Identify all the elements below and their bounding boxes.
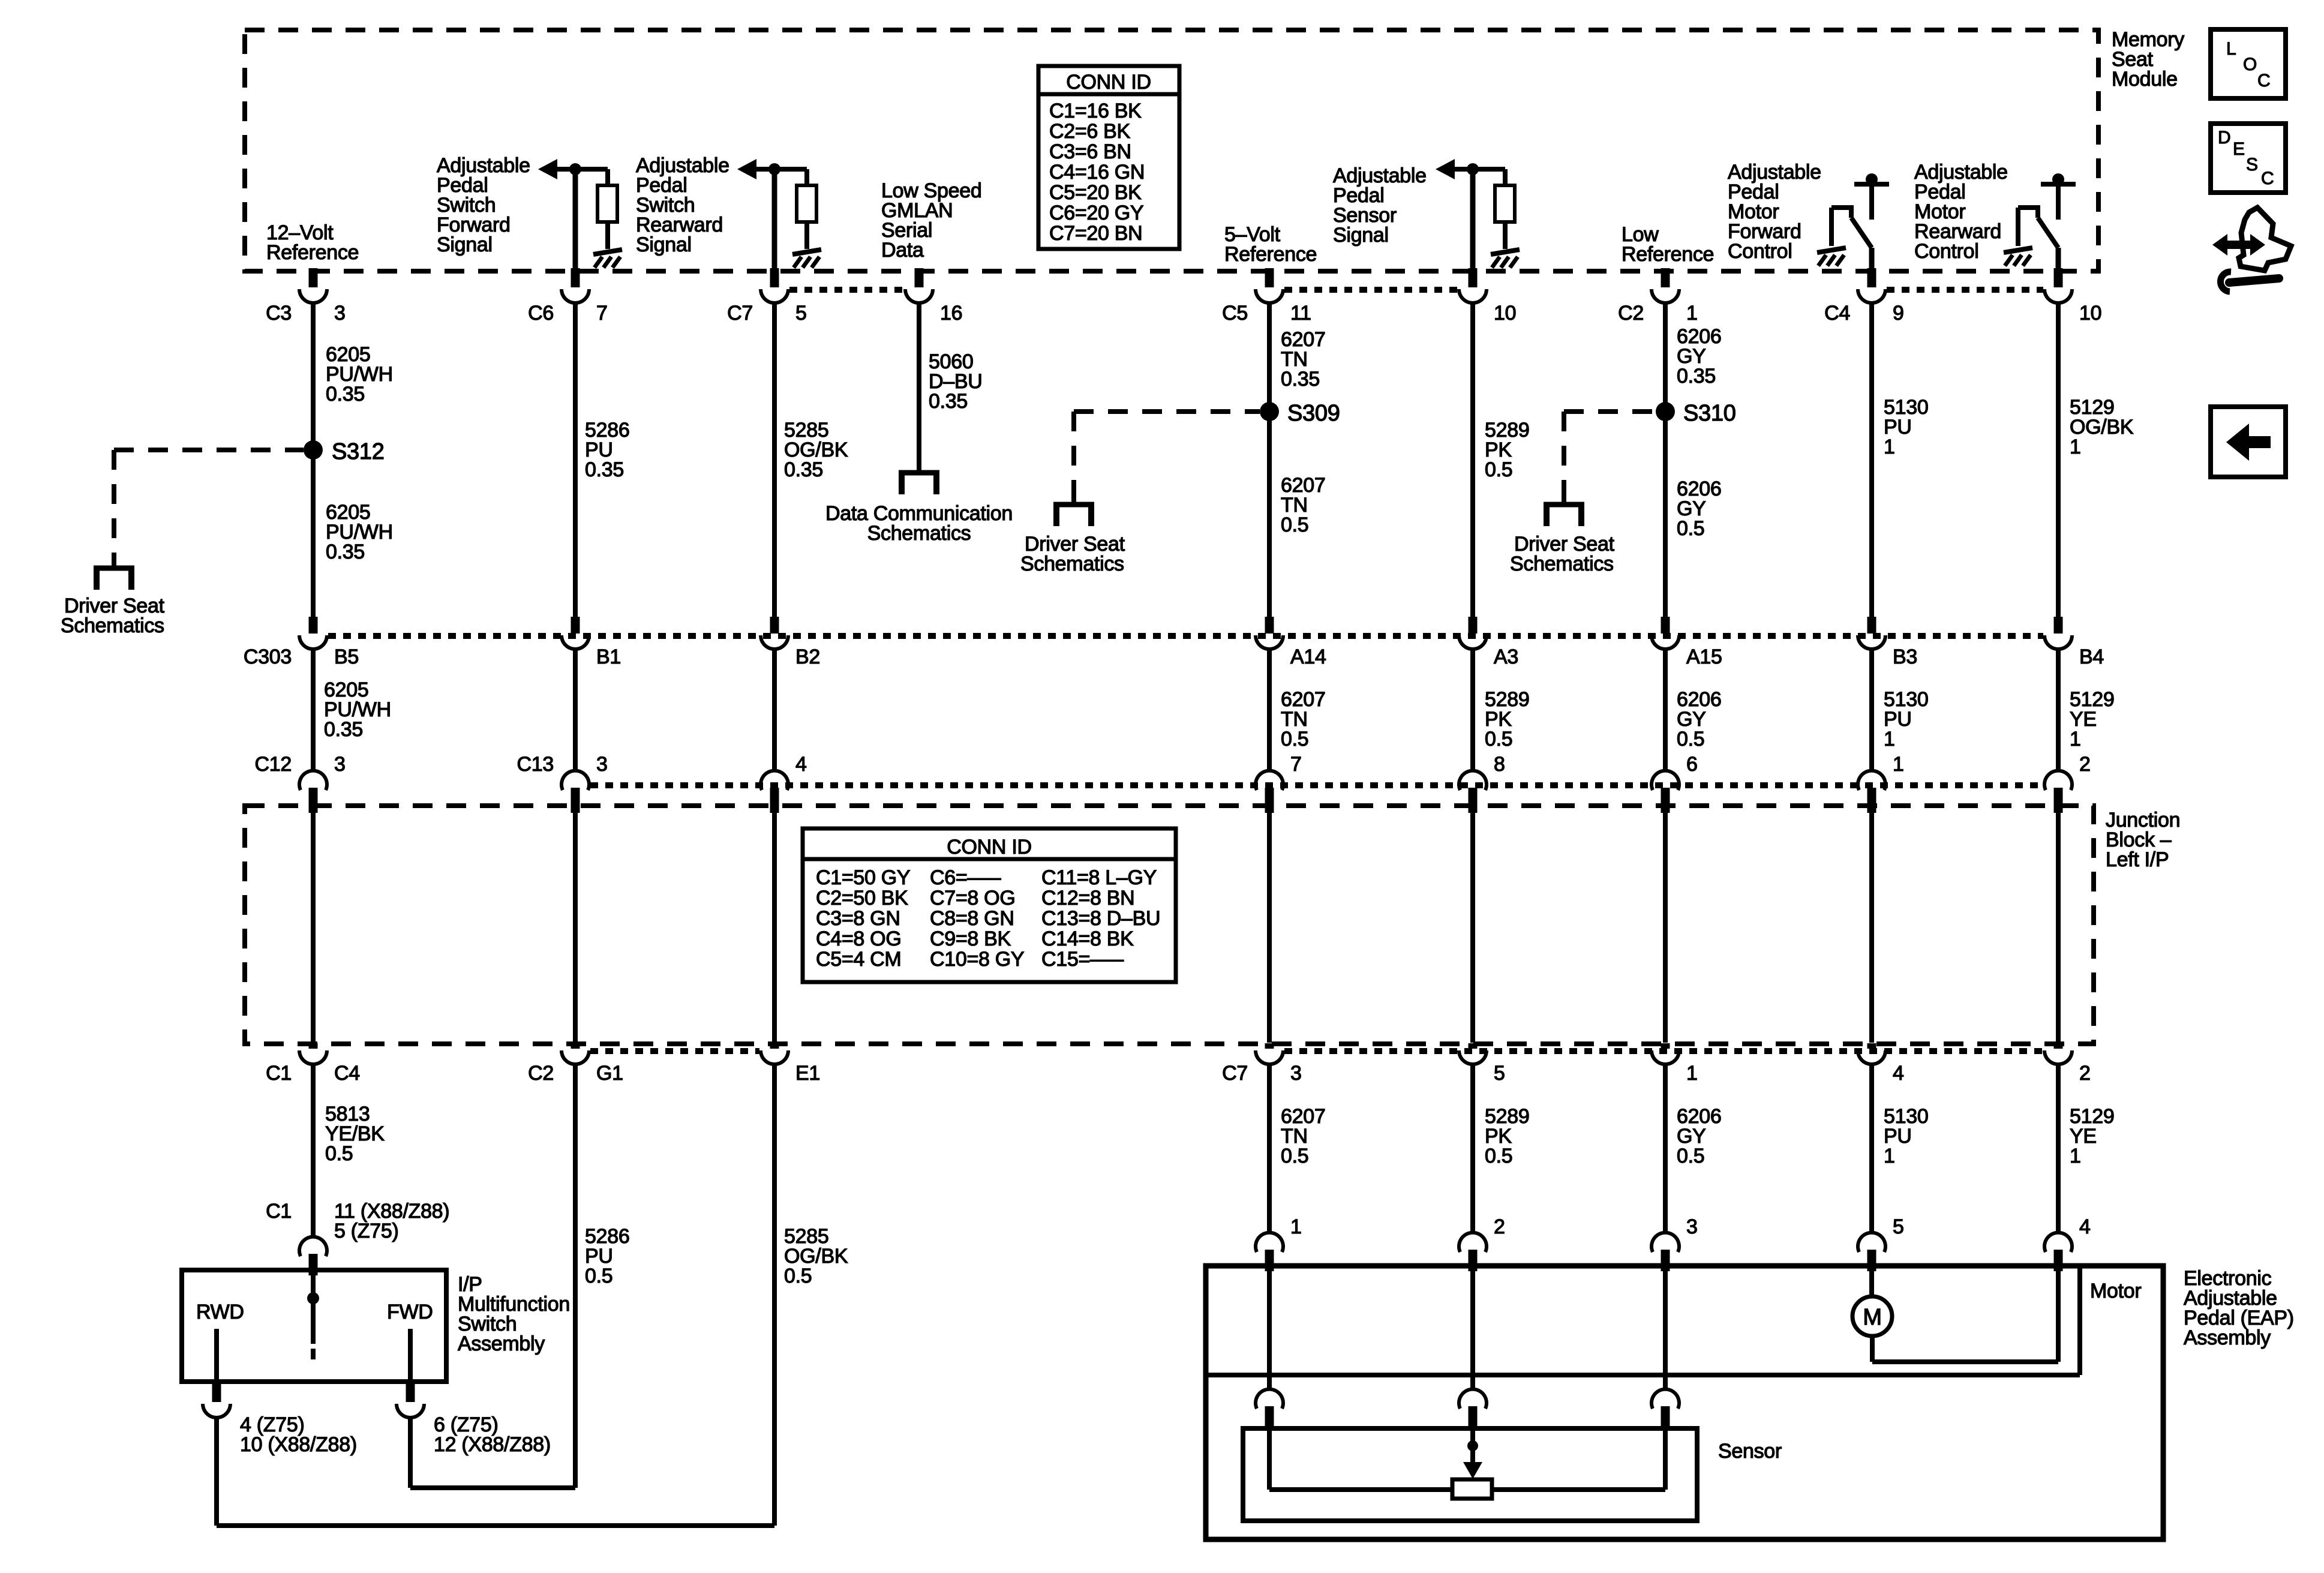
svg-text:0.5: 0.5	[1677, 728, 1704, 751]
Electronic Adjustable Pedal (EAP) Assembly box	[1206, 1266, 2163, 1539]
sensor connector pin (middle)	[1459, 1389, 1487, 1409]
wire 6206 GY 0.35 (C2-1 down)	[1663, 304, 1668, 617]
svg-text:C1: C1	[266, 1062, 292, 1085]
svg-text:C7: C7	[1222, 1062, 1248, 1085]
svg-text:C1=16 BK: C1=16 BK	[1049, 100, 1142, 122]
dashed branch from S312 to driver seat schematics	[114, 448, 304, 452]
svg-text:5: 5	[1893, 1215, 1904, 1238]
connector pin 6 (Z75) / 12 (X88/Z88) below FWD	[406, 1382, 415, 1402]
svg-text:3: 3	[334, 753, 346, 776]
svg-text:2: 2	[2079, 753, 2091, 776]
dashed branch from S309 to driver seat schematics	[1074, 409, 1260, 414]
FWD contact wire	[408, 1329, 413, 1379]
wire 6207 TN 0.35 (C5-11 down)	[1267, 304, 1272, 617]
svg-text:Assembly: Assembly	[458, 1332, 545, 1355]
wire 6205 PU/WH 0.35 (C3-3 down)	[311, 304, 316, 617]
svg-text:5: 5	[795, 302, 807, 325]
connector pin 8 (junction block row)	[1459, 771, 1487, 790]
connector C303 pin B2	[770, 617, 779, 634]
svg-text:B3: B3	[1893, 646, 1917, 668]
connector C7 pin 3 (below junction block)	[1265, 1043, 1274, 1049]
svg-text:10: 10	[1494, 302, 1516, 325]
svg-text:0.5: 0.5	[1485, 458, 1512, 481]
connector C303 body dotted line	[328, 633, 2043, 639]
connector C303 pin A14	[1265, 617, 1274, 634]
svg-text:0.35: 0.35	[326, 541, 365, 563]
svg-text:Reference: Reference	[1224, 243, 1317, 266]
connector pin C3 3 (module row)	[309, 268, 318, 287]
wire through junction block (C13-3 to C2-G1)	[573, 810, 578, 1043]
connector pin 5 (EAP assembly top)	[1858, 1233, 1885, 1252]
connector pin 10 (module row)	[2054, 268, 2063, 287]
connector pin C6 7 (module row)	[571, 268, 580, 287]
svg-text:C: C	[2257, 71, 2271, 91]
dashed branch from S310 to driver seat schematics	[1564, 409, 1656, 414]
ground (pedal switch rearward)	[792, 250, 821, 254]
wire 6206 GY 0.5 (to EAP assembly)	[1663, 1065, 1668, 1233]
connector C7 body dotted line (pins 3-5-1-4-2)	[1284, 1048, 2043, 1054]
svg-text:0.5: 0.5	[1677, 1145, 1704, 1167]
ground (motor forward switch)	[1817, 248, 1846, 253]
svg-text:1: 1	[1686, 302, 1698, 325]
splice S309	[1260, 402, 1279, 421]
svg-text:C8=8 GN: C8=8 GN	[930, 907, 1014, 930]
svg-text:CONN ID: CONN ID	[947, 836, 1031, 858]
switch Adjustable Pedal Motor Rearward (contact, arm, ground)	[2052, 173, 2064, 185]
svg-text:Schematics: Schematics	[867, 522, 971, 545]
wire segment B1 to C13-3	[573, 650, 578, 772]
svg-text:C11=8 L–GY: C11=8 L–GY	[1041, 866, 1157, 889]
svg-text:C7=8 OG: C7=8 OG	[930, 887, 1015, 909]
svg-text:9: 9	[1893, 302, 1904, 325]
wire 5130 PU 1 (C4-9 down)	[1869, 304, 1874, 617]
connector pin 10 (module row)	[1469, 268, 1478, 287]
svg-text:C4=8 OG: C4=8 OG	[816, 927, 901, 950]
svg-text:3: 3	[1290, 1062, 1302, 1085]
connector C303 pin B1	[571, 617, 580, 634]
svg-text:C14=8 BK: C14=8 BK	[1041, 927, 1134, 950]
svg-text:FWD: FWD	[387, 1301, 433, 1323]
svg-text:0.5: 0.5	[585, 1265, 612, 1287]
motor compartment partition	[2077, 1266, 2082, 1375]
sensor potentiometer wiring (5V side)	[1267, 1431, 1272, 1490]
CONN ID table (Junction Block)	[803, 828, 1176, 982]
splice S310	[1656, 402, 1675, 421]
svg-text:C10=8 GY: C10=8 GY	[930, 948, 1024, 971]
wire 5130 PU 1 (to EAP assembly)	[1869, 1065, 1874, 1233]
connector C13 body dotted line	[590, 782, 2043, 788]
svg-text:B2: B2	[795, 646, 820, 668]
potentiometer resistor element	[1452, 1479, 1492, 1499]
svg-text:C6=20 GY: C6=20 GY	[1049, 202, 1143, 224]
wire through junction block (C12-3 to C1-C4)	[311, 810, 316, 1043]
connector body dotted line C5 pins 11-10	[1284, 287, 1458, 293]
connector pin 1 (EAP assembly top)	[1256, 1233, 1283, 1252]
svg-text:1: 1	[2070, 436, 2081, 458]
svg-text:1: 1	[2070, 728, 2081, 751]
svg-text:B5: B5	[334, 646, 359, 668]
resistor (pedal switch rearward)	[797, 185, 816, 222]
wire 5129 YE 1 (to EAP assembly)	[2056, 1065, 2061, 1233]
svg-text:C2: C2	[528, 1062, 554, 1085]
connector pin 2 (EAP assembly top)	[1459, 1233, 1487, 1252]
wire through junction block (pin 1 to pin 4)	[1869, 810, 1874, 1043]
wire 6206 GY 0.5 (A15 to pin 6)	[1663, 650, 1668, 772]
svg-text:4: 4	[2079, 1215, 2091, 1238]
svg-text:C1: C1	[266, 1200, 292, 1223]
wire pin 5 to motor	[1869, 1268, 1874, 1296]
svg-text:5: 5	[1494, 1062, 1505, 1085]
connector C303 pin B5	[309, 617, 318, 634]
svg-text:Sensor: Sensor	[1718, 1440, 1782, 1463]
svg-text:A3: A3	[1494, 646, 1518, 668]
svg-text:C7: C7	[727, 302, 753, 325]
off-page fork to Data Communication Schematics	[917, 458, 921, 473]
wire 5289 PK 0.5 (to EAP assembly)	[1470, 1065, 1475, 1233]
svg-text:1: 1	[1884, 728, 1895, 751]
svg-text:C6=–––: C6=–––	[930, 866, 1001, 889]
svg-text:C5: C5	[1222, 302, 1248, 325]
svg-text:C4: C4	[334, 1062, 360, 1085]
svg-text:Schematics: Schematics	[1510, 553, 1614, 575]
svg-text:0.5: 0.5	[1677, 517, 1704, 540]
switch Adjustable Pedal Switch Forward (arrow, junction, resistor, ground)	[538, 159, 557, 179]
svg-text:0.5: 0.5	[1281, 1145, 1308, 1167]
connector pin 3 (EAP assembly top)	[1652, 1233, 1679, 1252]
connector pin C4 9 (module row)	[1867, 268, 1876, 287]
svg-text:C1=50 GY: C1=50 GY	[816, 866, 910, 889]
connector pin 6 (junction block row)	[1652, 771, 1679, 790]
svg-text:C12=8 BN: C12=8 BN	[1041, 887, 1134, 909]
svg-text:S: S	[2246, 155, 2258, 175]
svg-text:16: 16	[940, 302, 962, 325]
wire 5289 PK 0.5 (A3 to pin 8)	[1470, 650, 1475, 772]
svg-text:12 (X88/Z88): 12 (X88/Z88)	[434, 1433, 551, 1456]
svg-text:7: 7	[596, 302, 608, 325]
svg-text:E1: E1	[795, 1062, 820, 1085]
svg-text:Control: Control	[1914, 240, 1979, 263]
svg-text:CONN ID: CONN ID	[1066, 71, 1151, 94]
connector pin 4 (below junction block)	[1867, 1043, 1876, 1049]
svg-text:S310: S310	[1683, 401, 1736, 426]
icon back arrow box	[2211, 407, 2286, 477]
svg-text:1: 1	[2070, 1145, 2081, 1167]
ground (motor rearward switch)	[2004, 248, 2032, 253]
wire 5286 PU 0.5 (G1 down to FWD return)	[573, 1065, 578, 1488]
svg-text:S312: S312	[332, 439, 385, 464]
svg-text:3: 3	[596, 753, 608, 776]
svg-text:1: 1	[1893, 753, 1904, 776]
wire sensor signal (pin 2 down)	[1470, 1268, 1475, 1389]
svg-text:4: 4	[795, 753, 807, 776]
svg-text:C2: C2	[1618, 302, 1644, 325]
connector C303 pin B4	[2054, 617, 2063, 634]
motor M circle	[1852, 1296, 1892, 1336]
connector C303 pin A3	[1469, 617, 1478, 634]
svg-text:C4=16 GN: C4=16 GN	[1049, 161, 1145, 184]
svg-text:C5=20 BK: C5=20 BK	[1049, 181, 1142, 204]
svg-text:Motor: Motor	[2090, 1280, 2141, 1302]
connector pin 1 (junction block row)	[1858, 771, 1885, 790]
off-page fork (S309 branch)	[1071, 490, 1076, 505]
svg-text:2: 2	[2079, 1062, 2091, 1085]
connector C2 body dotted line (G1-E1)	[590, 1048, 759, 1054]
off-page fork (S310 branch)	[1562, 490, 1566, 505]
ground (pedal sensor)	[1491, 250, 1520, 254]
svg-text:10: 10	[2079, 302, 2101, 325]
svg-text:0.35: 0.35	[929, 390, 968, 413]
icon DESC box	[2211, 124, 2286, 193]
svg-text:0.5: 0.5	[784, 1265, 812, 1287]
connector pin 4 (junction block row)	[761, 771, 788, 790]
connector C303 pin A15	[1661, 617, 1670, 634]
svg-text:0.35: 0.35	[326, 383, 365, 406]
wire motor to pin 4	[1870, 1336, 1875, 1362]
wire through junction block (pin 7 to C7-3)	[1267, 810, 1272, 1043]
svg-text:Module: Module	[2112, 68, 2178, 91]
svg-text:C3=8 GN: C3=8 GN	[816, 907, 900, 930]
switch Adjustable Pedal Switch Rearward (arrow, junction, resistor, ground)	[737, 159, 756, 179]
wire 5285 OG/BK 0.5 (E1 down to RWD return)	[772, 1065, 777, 1526]
ground (pedal switch forward)	[593, 250, 622, 254]
wire 5129 YE 1 (B4 to pin 2)	[2056, 650, 2061, 772]
svg-text:C12: C12	[255, 753, 292, 776]
svg-text:11: 11	[1290, 302, 1311, 325]
svg-text:C6: C6	[528, 302, 554, 325]
svg-text:1: 1	[1884, 436, 1895, 458]
wire 6205 PU/WH 0.35 (B5 to C12-3)	[311, 650, 316, 772]
svg-text:E: E	[2233, 139, 2245, 159]
svg-text:C7=20 BN: C7=20 BN	[1049, 222, 1142, 245]
wire 5130 PU 1 (B3 to pin 1)	[1869, 650, 1874, 772]
svg-text:3: 3	[334, 302, 346, 325]
icon LOC box	[2211, 29, 2286, 98]
svg-text:0.35: 0.35	[324, 718, 363, 741]
Memory Seat Module dashed box	[245, 30, 2098, 271]
svg-text:5 (Z75): 5 (Z75)	[334, 1220, 399, 1242]
connector pin 4 (EAP assembly top)	[2044, 1233, 2072, 1252]
CONN ID table (Memory Seat Module)	[1038, 66, 1179, 249]
svg-text:C3=6 BN: C3=6 BN	[1049, 140, 1131, 163]
connector pin E1 (below junction block)	[770, 1043, 779, 1049]
switch Adjustable Pedal Motor Forward (contact, arm, ground)	[1866, 173, 1878, 185]
connector pin 7 (junction block row)	[1256, 771, 1283, 790]
svg-text:A15: A15	[1686, 646, 1722, 668]
Junction Block - Left I/P dashed box	[245, 806, 2094, 1044]
connector body dotted line C7 pins 5-16	[789, 287, 904, 293]
wire through junction block (pin 4 to E1)	[772, 810, 777, 1043]
svg-text:10 (X88/Z88): 10 (X88/Z88)	[240, 1433, 357, 1456]
svg-text:0.5: 0.5	[1281, 728, 1308, 751]
svg-text:0.5: 0.5	[1485, 1145, 1512, 1167]
resistor (pedal switch forward)	[597, 185, 617, 222]
svg-text:0.5: 0.5	[325, 1142, 353, 1165]
svg-text:C: C	[2261, 169, 2274, 188]
svg-text:0.5: 0.5	[1281, 514, 1308, 536]
wire 5285 OG/BK 0.35 (C7-5 down)	[772, 304, 777, 617]
svg-text:6: 6	[1686, 753, 1698, 776]
svg-text:G1: G1	[596, 1062, 623, 1085]
svg-text:Signal: Signal	[437, 233, 493, 256]
svg-text:Control: Control	[1728, 240, 1792, 263]
off-page fork (S312 branch)	[112, 554, 116, 568]
connector pin 16 (module row)	[915, 268, 924, 287]
svg-text:B4: B4	[2079, 646, 2104, 668]
I/P Multifunction Switch Assembly box	[182, 1270, 446, 1382]
svg-text:C2=6 BK: C2=6 BK	[1049, 120, 1131, 143]
wire RWD return to 5285 (E1)	[214, 1418, 219, 1526]
svg-text:Reference: Reference	[1622, 243, 1714, 266]
wire 5813 YE/BK 0.5 (C4 down)	[311, 1065, 316, 1237]
svg-text:C5=4 CM: C5=4 CM	[816, 948, 901, 971]
wire sensor 5V (pin 1 down)	[1267, 1268, 1272, 1389]
connector C12 pin 3 (junction block row)	[299, 771, 327, 790]
svg-text:C13: C13	[517, 753, 554, 776]
wire 5289 PK 0.5 (pin 10 down)	[1470, 304, 1475, 617]
svg-text:C303: C303	[244, 646, 292, 668]
connector body dotted line C4 pins 9-10	[1887, 287, 2043, 293]
connector pin 1 (below junction block)	[1661, 1043, 1670, 1049]
svg-text:S309: S309	[1287, 401, 1340, 426]
svg-text:0.35: 0.35	[784, 458, 823, 481]
sensor potentiometer wiring (low side)	[1663, 1431, 1668, 1490]
svg-text:M: M	[1863, 1305, 1881, 1330]
svg-text:O: O	[2243, 55, 2257, 74]
svg-text:7: 7	[1290, 753, 1302, 776]
sensor signal symbol (arrow, junction, resistor, ground)	[1436, 159, 1455, 179]
svg-text:A14: A14	[1290, 646, 1326, 668]
svg-text:Signal: Signal	[1333, 224, 1389, 247]
wire 6207 TN 0.5 (to EAP assembly)	[1267, 1065, 1272, 1233]
wire 5286 PU 0.35 (C6-7 down)	[573, 304, 578, 617]
svg-text:Data: Data	[881, 239, 924, 262]
svg-text:8: 8	[1494, 753, 1505, 776]
svg-text:3: 3	[1686, 1215, 1698, 1238]
svg-text:B1: B1	[596, 646, 621, 668]
Sensor box	[1243, 1428, 1697, 1521]
svg-text:C2=50 BK: C2=50 BK	[816, 887, 908, 909]
svg-text:4: 4	[1893, 1062, 1904, 1085]
svg-text:C4: C4	[1824, 302, 1850, 325]
svg-text:0.5: 0.5	[1485, 728, 1512, 751]
svg-text:L: L	[2226, 39, 2236, 59]
svg-text:D: D	[2218, 128, 2231, 148]
switch common contact (junction dot and open contact)	[311, 1272, 316, 1344]
splice S312	[304, 440, 323, 460]
wire through junction block (pin 2 to pin 2)	[2056, 810, 2061, 1043]
wire segment B2 to pin 4	[772, 650, 777, 772]
connector pin C5 11 (module row)	[1265, 268, 1274, 287]
sensor connector pin (right)	[1652, 1389, 1679, 1409]
sensor connector pin (left)	[1256, 1389, 1283, 1409]
svg-text:2: 2	[1494, 1215, 1505, 1238]
wire 5129 OG/BK 1 (pin 10 down)	[2056, 304, 2061, 617]
connector pin 2 (junction block row)	[2044, 771, 2072, 790]
connector pin 4 (Z75) / 10 (X88/Z88) below RWD	[212, 1382, 221, 1402]
connector C1 pin C4 (below junction block)	[309, 1043, 318, 1049]
wire sensor low ref (pin 3 down)	[1663, 1268, 1668, 1389]
connector pin C7 5 (module row)	[770, 268, 779, 287]
resistor (pedal sensor)	[1495, 185, 1515, 222]
connector pin C2 1 (module row)	[1661, 268, 1670, 287]
connector C2 pin G1 (below junction block)	[571, 1043, 580, 1049]
svg-text:Assembly: Assembly	[2184, 1326, 2271, 1349]
svg-text:0.35: 0.35	[1281, 368, 1320, 391]
svg-text:0.35: 0.35	[1677, 365, 1716, 388]
wire FWD return to 5286 (G1)	[408, 1418, 413, 1488]
icon wrench with double arrow	[2239, 208, 2291, 271]
svg-text:Schematics: Schematics	[61, 614, 164, 637]
wire 5060 D-BU 0.35 (pin 16 down)	[917, 304, 921, 460]
connector pin 2 (below junction block)	[2054, 1043, 2063, 1049]
connector pin 5 (below junction block)	[1469, 1043, 1478, 1049]
svg-text:1: 1	[1686, 1062, 1698, 1085]
wire through junction block (pin 8 to pin 5)	[1470, 810, 1475, 1043]
svg-text:1: 1	[1884, 1145, 1895, 1167]
wire through junction block (pin 6 to pin 1)	[1663, 810, 1668, 1043]
wire 6207 TN 0.5 (A14 to pin 7)	[1267, 650, 1272, 772]
svg-text:Signal: Signal	[636, 233, 692, 256]
svg-text:RWD: RWD	[196, 1301, 244, 1323]
svg-text:Schematics: Schematics	[1020, 553, 1124, 575]
svg-text:1: 1	[1290, 1215, 1302, 1238]
sensor wiper (junction dot and arrow)	[1470, 1431, 1475, 1467]
svg-text:C3: C3	[266, 302, 292, 325]
svg-text:C13=8 D–BU: C13=8 D–BU	[1041, 907, 1160, 930]
connector C13 pin 3 (junction block row)	[562, 771, 589, 790]
svg-text:Left I/P: Left I/P	[2106, 848, 2169, 871]
svg-text:Reference: Reference	[266, 241, 359, 264]
svg-text:C15=–––: C15=–––	[1041, 948, 1124, 971]
connector C303 pin B3	[1867, 617, 1876, 634]
RWD contact wire	[214, 1329, 219, 1379]
svg-text:C9=8 BK: C9=8 BK	[930, 927, 1011, 950]
svg-text:0.35: 0.35	[585, 458, 624, 481]
